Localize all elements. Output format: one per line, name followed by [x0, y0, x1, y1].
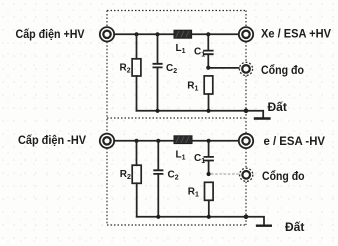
node B (C2 tap, top) — [155, 32, 159, 36]
node E2 (C2 bottom, bottom circuit) — [156, 215, 160, 219]
node G2 (ground tap, bottom circuit) — [244, 215, 249, 220]
enclosure left dashed border — [106, 11, 108, 226]
node F (R1 bottom, top circuit) — [206, 109, 210, 113]
svg-text:C1: C1 — [194, 47, 205, 59]
measuring port P2 (Cong do, bottom) — [240, 168, 253, 181]
node G (ground tap, top circuit) — [244, 109, 249, 114]
svg-text:C2: C2 — [166, 63, 177, 75]
node D (C1-R1 junction, top) — [206, 66, 210, 70]
capacitor C1 (bottom) — [204, 141, 214, 174]
node C (L1-C1 junction, top) — [206, 32, 210, 36]
svg-text:Xe / ESA +HV: Xe / ESA +HV — [261, 27, 331, 41]
ground GND1 — [246, 111, 271, 119]
inductor L1 (top) — [174, 30, 192, 38]
wire top bus (bottom circuit) — [114, 140, 239, 142]
svg-text:e / ESA -HV: e / ESA -HV — [264, 134, 326, 148]
resistor R2 (top) — [132, 34, 141, 111]
connector J1 (supply +HV) — [100, 27, 114, 41]
resistor R1 (bottom) — [205, 182, 214, 217]
capacitor C2 (bottom) — [153, 141, 163, 217]
node C2j (L1-C1 junction, bottom) — [207, 139, 211, 143]
ground GND2 — [246, 217, 272, 226]
svg-text:L1: L1 — [176, 43, 186, 55]
node D2 (C1-R1 junction, bottom) — [207, 172, 211, 176]
enclosure right dashed border — [245, 11, 247, 226]
node A2 (R2 tap, bottom) — [134, 139, 138, 143]
svg-text:Đất: Đất — [268, 100, 287, 114]
wire bottom bus (top circuit) — [137, 110, 247, 112]
svg-text:Đất: Đất — [285, 220, 304, 234]
wire node D2 to measuring port (bottom, faint dashed) — [211, 173, 239, 175]
wire bottom bus (bottom circuit) — [137, 216, 247, 218]
node B2 (C2 tap, bottom) — [156, 139, 160, 143]
svg-text:Cổng đo: Cổng đo — [262, 169, 305, 183]
enclosure middle divider dashed border — [107, 117, 246, 119]
svg-text:Cấp điện -HV: Cấp điện -HV — [18, 133, 86, 147]
svg-text:R2: R2 — [120, 63, 131, 75]
capacitor C2 (top) — [153, 34, 163, 111]
svg-text:Cấp điện +HV: Cấp điện +HV — [16, 27, 85, 41]
wire top bus (top circuit) — [114, 33, 239, 35]
connector J2 (Xe / ESA +HV) — [239, 27, 253, 41]
connector J4 (e / ESA -HV) — [239, 134, 253, 148]
svg-text:R2: R2 — [120, 169, 131, 181]
inductor L1 (bottom) — [174, 136, 192, 144]
resistor R1 (top) — [204, 76, 213, 111]
svg-text:Cổng đo: Cổng đo — [261, 63, 304, 77]
svg-text:C1: C1 — [194, 153, 205, 165]
node A (R2 tap, top) — [134, 32, 138, 36]
resistor R2 (bottom) — [132, 141, 141, 217]
svg-text:R1: R1 — [188, 187, 199, 199]
node E (C2 bottom, top circuit) — [155, 109, 159, 113]
connector J3 (supply -HV) — [100, 134, 114, 148]
enclosure bottom dashed border — [107, 224, 246, 226]
svg-text:L1: L1 — [176, 149, 186, 161]
svg-text:C2: C2 — [168, 170, 179, 182]
measuring port P1 (Cong do, top) — [239, 62, 252, 75]
node F2 (R1 bottom, bottom circuit) — [207, 215, 211, 219]
capacitor C1 (top) — [203, 34, 213, 67]
svg-text:R1: R1 — [187, 80, 198, 92]
enclosure top dashed border — [107, 10, 246, 12]
wire node D to measuring port (top) — [208, 67, 239, 69]
